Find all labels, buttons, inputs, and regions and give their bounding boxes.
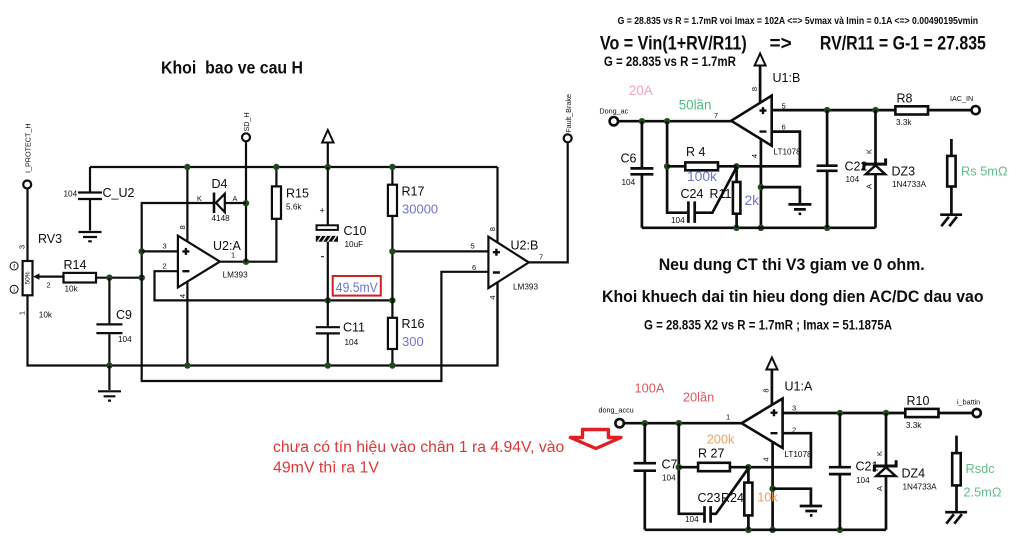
svg-text:Rsdc: Rsdc [966, 461, 996, 476]
power arrow VCC [322, 130, 333, 167]
node dong_accu [599, 406, 634, 428]
svg-text:104: 104 [118, 335, 132, 344]
svg-text:104: 104 [622, 178, 636, 187]
svg-text:Neu dung CT thi V3 giam ve 0 o: Neu dung CT thi V3 giam ve 0 ohm. [659, 256, 925, 274]
wire R27 branch [679, 423, 705, 514]
junction C9 bottom [106, 362, 112, 368]
wire pin4 down [760, 139, 763, 228]
svg-text:3.3k: 3.3k [906, 421, 922, 430]
wire bottom rail bottom circuit [645, 528, 886, 531]
svg-text:Khoi bao ve cau H: Khoi bao ve cau H [161, 58, 303, 78]
red block arrow [570, 430, 621, 449]
junction feedback C10 [325, 297, 331, 303]
resistor R8 [895, 92, 928, 128]
junction DZ4 top [883, 410, 889, 416]
resistor R15 [272, 167, 309, 219]
svg-text:8: 8 [750, 87, 759, 91]
wire pin3 [142, 242, 178, 252]
wire RV3 wiper to R14 [39, 277, 64, 290]
node IAC_IN [950, 94, 980, 114]
junction U2:A pin4 bottom [184, 362, 190, 368]
wire R14 to pin3 node [96, 277, 142, 279]
svg-text:6: 6 [472, 263, 476, 272]
svg-text:=>: => [770, 34, 792, 55]
svg-text:50lần: 50lần [679, 97, 712, 112]
svg-text:dong_accu: dong_accu [599, 406, 634, 415]
junction R16 bottom [389, 362, 395, 368]
svg-text:1: 1 [231, 251, 235, 260]
label 50lan [679, 97, 712, 112]
svg-text:1: 1 [726, 413, 730, 422]
svg-text:Rs 5mΩ: Rs 5mΩ [961, 164, 1008, 179]
svg-text:i_battin: i_battin [957, 398, 980, 407]
text Neu dung CT [659, 256, 925, 274]
wire gnd branch bottom [773, 489, 811, 505]
junction R27 branch top [676, 420, 682, 426]
wire top rail [90, 166, 498, 168]
capacitor C10 polarized [316, 167, 367, 300]
svg-text:10k: 10k [39, 311, 53, 320]
junction C11 bottom [325, 362, 331, 368]
wire pin2 loop [748, 433, 811, 467]
op-amp U1:B [714, 71, 801, 158]
svg-text:4: 4 [178, 294, 187, 298]
junction R4 branch top [664, 118, 670, 124]
svg-text:SD_H: SD_H [242, 112, 251, 131]
node Dong_ac [599, 107, 628, 126]
text G=28.835 X2 [644, 318, 892, 333]
svg-text:R24: R24 [721, 491, 744, 505]
svg-text:+: + [320, 206, 325, 216]
svg-text:Khoi khuech dai tin hieu dong: Khoi khuech dai tin hieu dong dien AC/DC… [602, 288, 984, 306]
op-amp U1:A [726, 380, 813, 462]
svg-text:I_PROTECT_H: I_PROTECT_H [23, 123, 32, 173]
svg-text:49mV thì ra 1V: 49mV thì ra 1V [273, 460, 380, 477]
junction pin3 node [139, 248, 145, 254]
junction C21 bottom [837, 527, 843, 533]
junction R24 bottom [745, 527, 751, 533]
label 20A [629, 83, 653, 98]
svg-text:U1:B: U1:B [773, 71, 801, 85]
svg-text:104: 104 [856, 476, 870, 485]
svg-text:50%: 50% [25, 271, 32, 284]
svg-text:20A: 20A [629, 83, 653, 98]
ground U1:B [788, 204, 811, 213]
svg-text:f: f [13, 264, 15, 271]
junction pin4 rail bottom [769, 527, 775, 533]
svg-text:104: 104 [685, 515, 699, 524]
svg-text:3: 3 [792, 404, 796, 413]
wire R10 to i_battin [939, 412, 973, 415]
svg-text:4: 4 [750, 154, 759, 158]
earth ground Rsdc [945, 512, 967, 524]
text formula small [618, 15, 979, 27]
svg-text:IAC_IN: IAC_IN [950, 94, 973, 103]
svg-text:U2:A: U2:A [213, 239, 241, 253]
svg-text:C6: C6 [621, 152, 637, 166]
svg-text:LT1078: LT1078 [784, 450, 812, 459]
svg-text:5: 5 [471, 242, 475, 251]
svg-text:10k: 10k [65, 285, 79, 294]
junction U2:A pin8 top [184, 164, 190, 170]
ground under C9 [98, 366, 121, 401]
svg-text:C10: C10 [344, 224, 367, 238]
svg-text:R15: R15 [286, 187, 309, 201]
zener DZ4 [874, 413, 937, 530]
junction R4 left [664, 163, 670, 169]
svg-text:5.6k: 5.6k [286, 203, 302, 212]
svg-text:K: K [197, 194, 202, 203]
node i_battin [957, 398, 981, 418]
junction C7 top [642, 420, 648, 426]
svg-text:30000: 30000 [402, 202, 438, 217]
svg-text:104: 104 [671, 216, 685, 225]
svg-text:1N4733A: 1N4733A [892, 180, 927, 189]
svg-text:20lần: 20lần [683, 390, 714, 405]
svg-text:Dong_ac: Dong_ac [599, 107, 628, 116]
svg-text:C24: C24 [681, 187, 704, 201]
junction R4 right node [733, 163, 739, 169]
svg-text:K: K [865, 149, 874, 154]
resistor R17 [388, 167, 438, 318]
potentiometer RV3 [10, 232, 62, 320]
op-amp U2:B [472, 227, 543, 299]
svg-text:G = 28.835 X2 vs R = 1.7mR ; I: G = 28.835 X2 vs R = 1.7mR ; Imax = 51.1… [644, 318, 892, 333]
node Fault_Brake [564, 94, 573, 142]
svg-text:7: 7 [714, 111, 718, 120]
svg-text:C9: C9 [116, 308, 132, 322]
capacitor C23 [685, 468, 748, 524]
text Khoi khuech dai [602, 288, 984, 306]
svg-text:104: 104 [64, 190, 78, 199]
svg-text:LM393: LM393 [513, 283, 538, 292]
resistor R4 [667, 145, 736, 184]
capacitor C9 [96, 278, 132, 366]
power arrow U1:B [755, 54, 766, 107]
svg-text:6: 6 [782, 123, 786, 132]
label 20lan [683, 390, 714, 405]
svg-text:DZ3: DZ3 [892, 165, 916, 179]
wire gnd branch [761, 187, 800, 203]
resistor R16 [388, 317, 425, 366]
resistor R27 [679, 431, 749, 471]
capacitor C21 [829, 413, 879, 530]
svg-text:DZ4: DZ4 [902, 467, 926, 481]
svg-text:R8: R8 [897, 92, 913, 106]
svg-text:chưa có tín hiệu vào chân 1 ra: chưa có tín hiệu vào chân 1 ra 4.94V, và… [273, 439, 564, 456]
svg-text:R 27: R 27 [698, 447, 724, 461]
svg-text:300: 300 [402, 334, 424, 349]
junction C6 top [639, 118, 645, 124]
svg-text:G = 28.835 vs R = 1.7mR voi Im: G = 28.835 vs R = 1.7mR voi Imax = 102A … [618, 15, 979, 27]
svg-text:R17: R17 [402, 185, 425, 199]
svg-text:R14: R14 [64, 258, 87, 272]
svg-text:G = 28.835 vs R = 1.7mR: G = 28.835 vs R = 1.7mR [604, 54, 736, 69]
svg-text:R 4: R 4 [686, 145, 706, 159]
svg-text:A: A [875, 486, 884, 491]
junction feedback R16 [389, 297, 395, 303]
svg-text:LM393: LM393 [223, 271, 248, 280]
svg-text:10uF: 10uF [345, 240, 364, 249]
junction pin4 rail [758, 225, 764, 231]
junction C21 top [837, 410, 843, 416]
junction pin4 gnd branch [758, 184, 764, 190]
svg-text:RV3: RV3 [38, 232, 62, 246]
svg-text:U2:B: U2:B [511, 239, 539, 253]
wire pin4 down [771, 442, 774, 530]
svg-text:3: 3 [163, 242, 167, 251]
svg-text:3: 3 [18, 245, 27, 249]
wire terminal to RV3 [26, 189, 28, 262]
wire R8 to IAC_IN [928, 109, 972, 112]
svg-text:R10: R10 [907, 394, 930, 408]
svg-text:U1:A: U1:A [785, 380, 813, 394]
wire U2:B output to Fault_Brake [529, 142, 568, 262]
wire pin5 U2:B [392, 242, 488, 252]
svg-text:D4: D4 [212, 177, 228, 191]
wire dong_accu to U1:A [624, 422, 742, 425]
wire pin2 feedback [155, 261, 393, 300]
capacitor C6 [621, 121, 654, 228]
svg-text:A: A [233, 194, 238, 203]
op-amp U2:A pin4 stub [186, 280, 188, 366]
svg-text:104: 104 [846, 175, 860, 184]
svg-text:2.5mΩ: 2.5mΩ [963, 485, 1001, 500]
junction C9 top [106, 275, 112, 281]
svg-text:2: 2 [47, 281, 51, 290]
label 100A [635, 381, 665, 396]
power arrow U1:A [766, 358, 777, 409]
svg-text:8: 8 [178, 225, 187, 229]
capacitor C24 [671, 167, 737, 225]
op-amp U2:B pin8 stub [496, 167, 498, 243]
op-amp U2:A pin8 stub [186, 167, 188, 243]
node I_PROTECT_H [23, 123, 32, 188]
junction DZ3 top [872, 107, 878, 113]
wire R4 branch [667, 121, 688, 213]
junction SD_H output [243, 259, 249, 265]
junction C22 top [824, 107, 830, 113]
svg-text:LT1078: LT1078 [774, 148, 802, 157]
resistor R10 [905, 394, 938, 430]
zener DZ3 [864, 110, 927, 228]
node SD_H [242, 112, 251, 141]
svg-text:100A: 100A [635, 381, 665, 396]
junction pin5 R17 [389, 248, 395, 254]
label 49.5mV [333, 276, 381, 296]
wire SD_H vertical [245, 141, 247, 261]
ground under C_U2 [79, 232, 102, 241]
svg-text:1: 1 [18, 311, 27, 315]
diode D4 [197, 177, 246, 223]
svg-text:10k: 10k [757, 489, 778, 504]
junction R15 top [273, 164, 279, 170]
red annotation text line1 [273, 439, 564, 456]
svg-text:3.3k: 3.3k [896, 118, 912, 127]
text formula Vo [600, 34, 986, 55]
svg-text:C_U2: C_U2 [103, 186, 135, 200]
capacitor C7 [634, 423, 678, 530]
op-amp U2:B pin4 stub [496, 281, 498, 366]
resistor R24 [744, 467, 778, 530]
capacitor C_U2 [64, 167, 135, 231]
svg-text:4148: 4148 [212, 214, 231, 223]
svg-text:7: 7 [539, 253, 543, 262]
svg-text:4: 4 [488, 295, 497, 299]
svg-text:A: A [865, 184, 874, 189]
svg-text:2k: 2k [745, 193, 760, 208]
capacitor C11 [316, 300, 365, 365]
svg-text:100k: 100k [687, 169, 717, 184]
svg-text:1N4733A: 1N4733A [903, 483, 938, 492]
svg-text:RV/R11 = G-1 = 27.835: RV/R11 = G-1 = 27.835 [820, 34, 986, 55]
ground U1:A [800, 506, 822, 515]
svg-text:8: 8 [762, 388, 771, 392]
svg-text:C7: C7 [662, 458, 678, 472]
svg-text:2: 2 [163, 261, 167, 270]
junction R27 right node [745, 464, 751, 470]
svg-text:C11: C11 [343, 321, 365, 335]
junction R11 bottom [733, 225, 739, 231]
resistor Rsdc shunt [952, 436, 1002, 512]
svg-text:C23: C23 [698, 491, 721, 505]
svg-text:R11: R11 [710, 187, 732, 201]
wire pin5 to R8 [772, 109, 896, 112]
title Khoi bao ve cau H [161, 58, 303, 78]
earth ground Rs [940, 215, 962, 227]
junction R14 right [139, 275, 145, 281]
svg-text:104: 104 [345, 338, 359, 347]
svg-text:Fault_Brake: Fault_Brake [564, 94, 573, 133]
capacitor C22 [817, 110, 868, 228]
svg-text:K: K [875, 451, 884, 456]
junction C22 bottom [824, 225, 830, 231]
wire U2:A output to R15 [220, 219, 277, 262]
red annotation text line2 [273, 460, 380, 477]
junction R27 left [676, 464, 682, 470]
op-amp U2:A [178, 225, 248, 298]
svg-text:49.5mV: 49.5mV [336, 280, 378, 295]
wire bottom rail top circuit [642, 226, 876, 229]
wire pin3 to R10 [783, 412, 906, 415]
wire Dong_ac to U1:B [618, 120, 731, 123]
svg-text:R16: R16 [402, 317, 425, 331]
junction D4 anode [243, 200, 249, 206]
svg-text:200k: 200k [707, 431, 735, 446]
wire D4K-pin3node-lower-pin6 polyline [142, 203, 489, 381]
svg-text:104: 104 [662, 474, 676, 483]
svg-text:4: 4 [762, 457, 771, 461]
resistor R14 [64, 258, 97, 294]
svg-text:i: i [13, 287, 14, 294]
svg-text:Vo = Vin(1+RV/R11): Vo = Vin(1+RV/R11) [600, 34, 747, 55]
wire pin6 loop [737, 132, 800, 167]
junction pin4 gnd branch bottom [769, 486, 775, 492]
junction VCC [325, 164, 331, 170]
text G=28.835 [604, 54, 736, 69]
junction R17 top [389, 164, 395, 170]
resistor R11 [710, 166, 760, 228]
resistor Rs shunt [947, 139, 1008, 215]
wire ground rail [28, 281, 498, 366]
svg-text:8: 8 [488, 227, 497, 231]
